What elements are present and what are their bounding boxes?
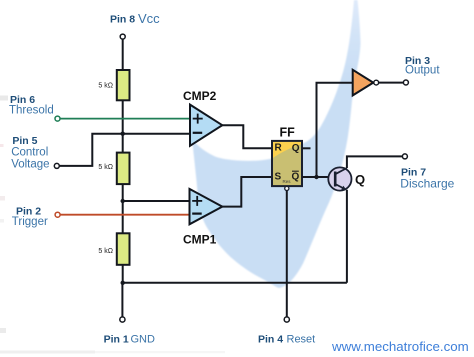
- op-amp CMP1: [183, 189, 222, 246]
- svg-text:Q: Q: [292, 143, 300, 154]
- svg-text:Voltage: Voltage: [11, 159, 49, 171]
- wire CMP2 out to FF R input: [222, 125, 272, 148]
- node divider upper (junction dot): [121, 132, 125, 136]
- svg-text:Q: Q: [292, 171, 300, 182]
- terminal Pin 2 (red): [55, 212, 60, 217]
- svg-text:Discharge: Discharge: [400, 176, 454, 190]
- label Pin 1 GND: [104, 333, 155, 345]
- svg-text:Pin 1: Pin 1: [104, 333, 129, 345]
- output buffer U1: [353, 70, 379, 96]
- svg-text:5 kΩ: 5 kΩ: [98, 248, 113, 255]
- label Pin 4 Reset: [258, 333, 315, 345]
- svg-text:Reset: Reset: [287, 334, 316, 346]
- wire threshold (green) to CMP2 +: [60, 118, 190, 120]
- svg-text:Q: Q: [355, 172, 365, 187]
- svg-text:Res: Res: [283, 179, 292, 184]
- terminal Pin 5: [54, 163, 59, 168]
- wire divider to CMP1 +: [123, 200, 190, 202]
- terminal Pin 7: [402, 154, 407, 159]
- resistor R1 5k: [98, 70, 129, 100]
- node ground junction: [121, 281, 125, 285]
- svg-text:5 kΩ: 5 kΩ: [98, 164, 113, 171]
- terminal Pin 3: [403, 80, 408, 85]
- label Pin 3 Output: [405, 55, 440, 77]
- wire R2 to R3: [122, 184, 124, 233]
- wire trigger (red) to CMP1 -: [60, 214, 189, 216]
- svg-text:Output: Output: [405, 65, 440, 77]
- wire junction up to output buffer: [317, 83, 353, 177]
- wire ground rail: [123, 282, 347, 284]
- wire FF Qbar to transistor base: [302, 176, 335, 178]
- terminal Pin 4: [284, 317, 289, 322]
- edge artifact gray streaks (decorative): [0, 96, 8, 101]
- svg-text:CMP1: CMP1: [183, 232, 217, 246]
- svg-text:Pin 5: Pin 5: [12, 135, 37, 147]
- wire R3 to ground rail: [122, 265, 124, 283]
- op-amp CMP2: [183, 89, 222, 146]
- label Pin 6 Threshold: [9, 94, 54, 117]
- svg-text:GND: GND: [131, 334, 156, 346]
- wire CMP1 out to FF S input: [222, 177, 272, 207]
- svg-text:S: S: [275, 172, 282, 183]
- flip-flop FF: [272, 126, 302, 187]
- label Pin 2 Trigger: [12, 205, 48, 228]
- terminal Pin 1: [120, 317, 125, 322]
- wire rail to Pin 1: [121, 283, 123, 317]
- wire FF reset to Pin 4: [286, 191, 288, 317]
- svg-text:Vcc: Vcc: [138, 11, 160, 26]
- node Qbar junction: [314, 175, 318, 179]
- wire Pin5 to CMP2 - input: [60, 134, 191, 166]
- resistor R2 5k: [98, 153, 129, 185]
- label Pin 8 Vcc: [110, 11, 160, 26]
- wire Vcc to R1: [122, 39, 124, 70]
- transistor Q1: [328, 167, 365, 190]
- wire buffer to Pin 3: [379, 82, 404, 84]
- svg-text:Pin 4: Pin 4: [258, 333, 283, 345]
- svg-text:5 kΩ: 5 kΩ: [98, 82, 113, 89]
- svg-text:Control: Control: [11, 147, 48, 159]
- label Pin 5 Control Voltage: [11, 135, 49, 171]
- FF reset bubble: [285, 186, 289, 190]
- wire R1 to R2: [122, 100, 124, 152]
- svg-text:Thresold: Thresold: [9, 105, 54, 117]
- label Pin 7 Discharge: [400, 166, 454, 190]
- wire collector to Pin 7: [347, 156, 402, 168]
- wire emitter down: [346, 190, 348, 283]
- terminal Pin 8: [120, 34, 125, 39]
- svg-text:CMP2: CMP2: [183, 89, 217, 103]
- terminal Pin 6 (green): [55, 116, 60, 121]
- svg-text:www.mechatrofice.com: www.mechatrofice.com: [331, 339, 469, 354]
- wire FF Q stub: [302, 147, 311, 149]
- node divider lower (junction dot): [121, 199, 125, 203]
- watermark swoosh: [192, 0, 361, 288]
- svg-text:R: R: [275, 142, 283, 153]
- svg-text:Trigger: Trigger: [12, 216, 48, 228]
- svg-text:Pin 8: Pin 8: [110, 14, 135, 26]
- resistor R3 5k: [98, 233, 129, 264]
- svg-text:FF: FF: [280, 126, 296, 140]
